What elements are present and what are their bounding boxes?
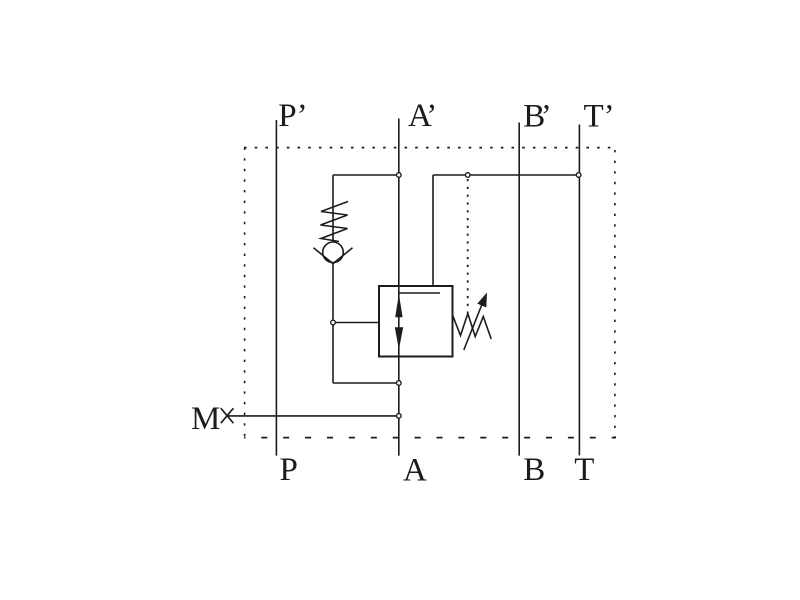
svg-text:T: T — [574, 452, 594, 488]
svg-text:M: M — [191, 401, 220, 437]
svg-text:P’: P’ — [278, 98, 307, 134]
svg-text:A’: A’ — [408, 98, 437, 134]
svg-text:B: B — [523, 452, 545, 488]
svg-text:A: A — [403, 453, 427, 489]
svg-text:B’: B’ — [523, 99, 552, 135]
svg-text:P: P — [280, 452, 298, 488]
svg-text:T’: T’ — [584, 99, 615, 135]
